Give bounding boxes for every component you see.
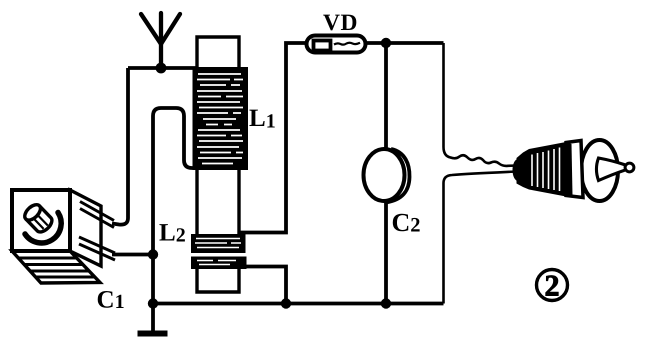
node VD output — [381, 38, 391, 48]
ferrite rod — [197, 37, 239, 292]
earphone body — [513, 140, 634, 201]
svg-text:VD: VD — [323, 10, 358, 36]
svg-text:C1: C1 — [97, 287, 125, 314]
right face — [70, 190, 101, 266]
collar — [566, 141, 583, 198]
wire earphone upper cable — [444, 43, 518, 166]
wire C1 tap loop to L1 bottom — [153, 108, 196, 254]
earpiece back disc — [581, 140, 618, 201]
knob dial arc — [25, 213, 61, 243]
svg-text:2: 2 — [545, 270, 560, 303]
wire ground vertical — [151, 254, 155, 331]
diode VD capsule — [307, 36, 366, 53]
wire bottom bus — [153, 302, 444, 306]
variable capacitor C1 — [12, 190, 115, 283]
node L2 bus junction — [281, 298, 291, 308]
wire C2 top lead — [384, 43, 388, 150]
diode whisker — [334, 43, 360, 45]
wire VD to top right corner — [367, 41, 444, 45]
antenna — [141, 13, 180, 68]
front face — [12, 190, 70, 251]
bottom face — [12, 251, 100, 283]
svg-text:L2: L2 — [159, 220, 186, 247]
wire L2 top to VD — [240, 43, 305, 233]
wire L2 bottom to bus — [246, 267, 286, 304]
capacitor C2 — [364, 149, 410, 202]
wire left vertical to C1 upper lead — [112, 68, 128, 225]
coil L2 upper winding — [191, 234, 246, 253]
C1 upper lead pair — [80, 202, 114, 228]
figure number 2 circled — [537, 270, 568, 303]
diode cathode block — [314, 41, 331, 51]
knob cylinder — [22, 202, 55, 235]
wire C1 lower lead to ground node — [112, 253, 153, 257]
svg-text:L1: L1 — [249, 105, 276, 133]
ribbed plug body — [517, 142, 573, 197]
coil L2 lower winding — [191, 257, 247, 270]
coil L1 — [193, 67, 249, 170]
node C1 lower junction — [148, 249, 158, 259]
wire C2 bottom lead — [384, 200, 388, 304]
C1 lower lead pair — [79, 237, 115, 260]
node ground bus junction — [148, 298, 158, 308]
ground — [138, 331, 168, 337]
node antenna junction — [156, 63, 167, 74]
node C2 bus junction — [381, 298, 391, 308]
wire earphone lower cable — [444, 172, 518, 304]
svg-text:C2: C2 — [392, 208, 421, 237]
nozzle — [596, 158, 626, 181]
wire antenna bus to L1 top — [128, 66, 196, 70]
